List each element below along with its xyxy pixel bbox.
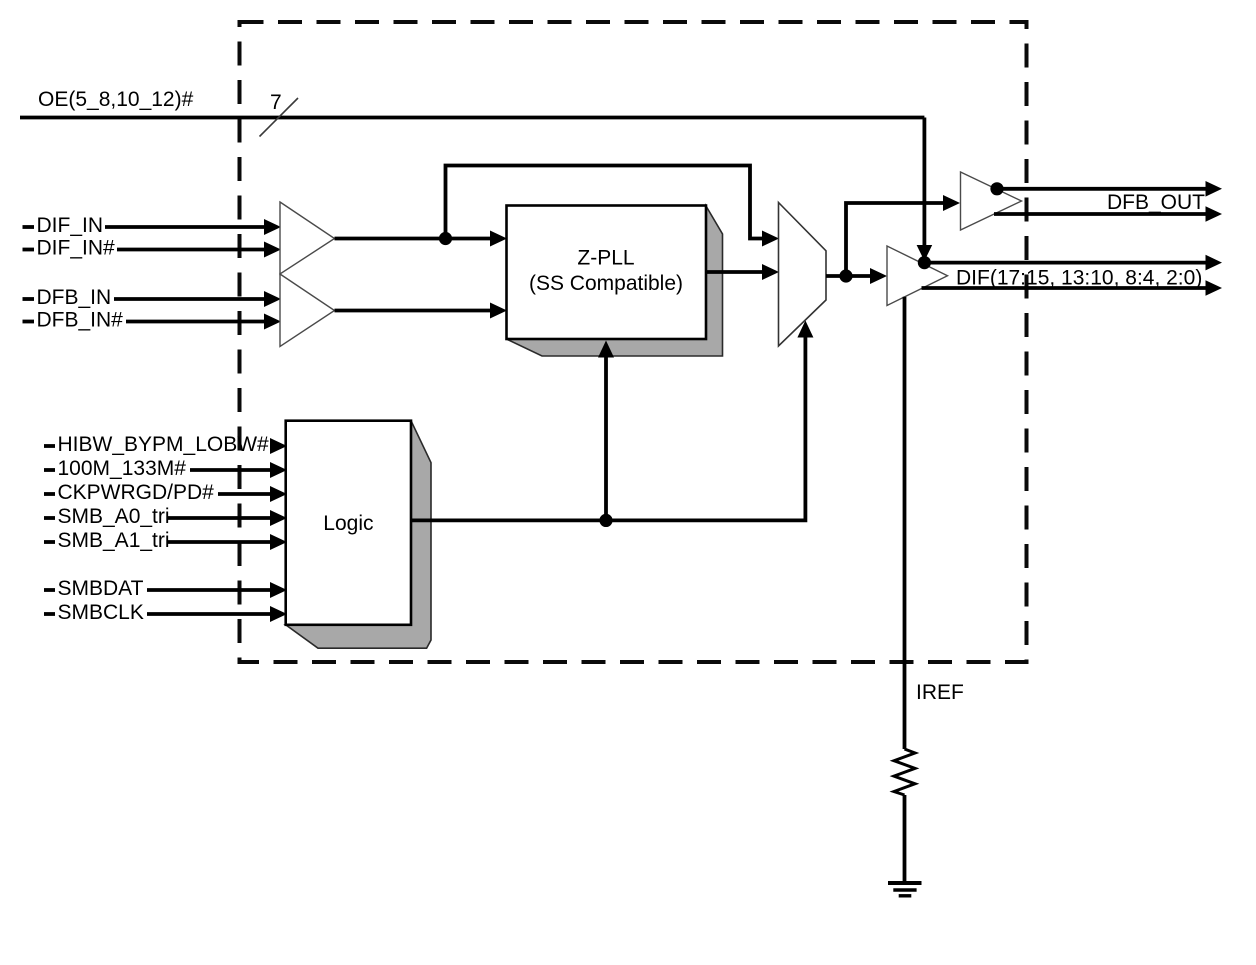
wire DIF buffer output to Z-PLL bbox=[335, 237, 492, 241]
svg-text:SMB_A0_tri: SMB_A0_tri bbox=[58, 505, 170, 528]
wire DFB_OUT complement bbox=[994, 212, 1207, 216]
input buffer DIF (triangle) bbox=[280, 202, 335, 274]
output buffer DIF (triangle) bbox=[887, 246, 948, 306]
bus width slash bbox=[260, 98, 299, 137]
node dot DIF true output / OE junction bbox=[918, 256, 931, 269]
arrow 100M_133M# bbox=[270, 462, 287, 478]
arrow OE down into DIF output node bbox=[917, 245, 933, 261]
arrow SMB_A0_tri bbox=[270, 510, 287, 526]
node dot DFB true output bbox=[990, 182, 1003, 195]
pin tick HIBW_BYPM_LOBW# bbox=[44, 444, 55, 448]
wire node C up to Z-PLL bottom bbox=[604, 356, 608, 520]
wire SMBCLK bbox=[147, 612, 271, 616]
node A junction dot on DIF buffer output bbox=[439, 232, 452, 245]
pin tick DFB_IN bbox=[23, 297, 35, 301]
pin tick DIF_IN# bbox=[23, 248, 35, 252]
svg-text:SMBCLK: SMBCLK bbox=[58, 601, 144, 624]
arrow SMBCLK bbox=[270, 606, 287, 622]
arrow DFB_IN# bbox=[264, 314, 281, 330]
wire IREF vertical bbox=[903, 297, 907, 749]
wire OE bus vertical drop bbox=[923, 118, 927, 247]
svg-text:SMBDAT: SMBDAT bbox=[58, 577, 144, 600]
arrow DIF complement bbox=[1206, 280, 1223, 296]
pin tick SMBCLK bbox=[44, 612, 55, 616]
wire DFB buffer output to Z-PLL bbox=[335, 309, 492, 313]
arrow SMBDAT bbox=[270, 582, 287, 598]
pin tick CKPWRGD/PD# bbox=[44, 492, 55, 496]
svg-text:DFB_OUT: DFB_OUT bbox=[1107, 191, 1205, 214]
chip boundary dashed box bbox=[240, 22, 1027, 662]
mux (trapezoid) bbox=[779, 203, 827, 347]
svg-text:DIF(17:15, 13:10, 8:4, 2:0): DIF(17:15, 13:10, 8:4, 2:0) bbox=[956, 267, 1202, 290]
svg-text:DIF_IN#: DIF_IN# bbox=[37, 237, 116, 260]
wire DIF complement bbox=[922, 286, 1207, 290]
arrow CKPWRGD/PD# bbox=[270, 486, 287, 502]
arrow into Z-PLL bottom bbox=[598, 341, 614, 358]
wire DFB_IN# bbox=[126, 320, 265, 324]
pin tick DFB_IN# bbox=[23, 320, 35, 324]
arrow HIBW_BYPM_LOBW# bbox=[270, 438, 287, 454]
svg-text:SMB_A1_tri: SMB_A1_tri bbox=[58, 529, 170, 552]
arrow into mux input 2 bbox=[762, 264, 779, 280]
svg-text:OE(5_8,10_12)#: OE(5_8,10_12)# bbox=[38, 88, 194, 111]
svg-text:DFB_IN#: DFB_IN# bbox=[37, 309, 124, 332]
svg-text:100M_133M#: 100M_133M# bbox=[58, 457, 187, 480]
node B junction dot mux output bbox=[839, 269, 852, 282]
arrow DFB_IN bbox=[264, 291, 281, 307]
Logic box U2 bbox=[286, 421, 411, 625]
pin tick SMB_A1_tri bbox=[44, 540, 55, 544]
wire DIF_IN bbox=[105, 225, 265, 229]
svg-text:DIF_IN: DIF_IN bbox=[37, 214, 104, 237]
svg-text:HIBW_BYPM_LOBW#: HIBW_BYPM_LOBW# bbox=[58, 433, 270, 456]
ground bbox=[888, 881, 922, 885]
arrow DIF_IN bbox=[264, 219, 281, 235]
wire Z-PLL output to mux input 2 bbox=[706, 270, 763, 274]
arrow DIF true bbox=[1206, 255, 1223, 271]
wire 100M_133M# bbox=[190, 468, 271, 472]
arrow into Z-PLL input 2 bbox=[490, 303, 507, 319]
arrow into Z-PLL input 1 bbox=[490, 231, 507, 247]
arrow into mux input 1 bbox=[762, 231, 779, 247]
svg-text:DFB_IN: DFB_IN bbox=[37, 286, 112, 309]
wire DFB_OUT true bbox=[997, 187, 1207, 191]
wire HIBW_BYPM_LOBW# bbox=[270, 444, 274, 448]
arrow into DIF output buffer bbox=[870, 268, 887, 284]
svg-text:IREF: IREF bbox=[916, 681, 964, 704]
wire DIF_IN# bbox=[117, 248, 265, 252]
svg-text:Logic: Logic bbox=[323, 512, 373, 535]
wire mux output bbox=[826, 274, 870, 278]
wire SMB_A0_tri bbox=[168, 516, 271, 520]
node C junction dot on logic output bbox=[599, 514, 612, 527]
wire DFB_IN bbox=[114, 297, 265, 301]
wire Logic output bbox=[411, 337, 805, 520]
svg-text:(SS Compatible): (SS Compatible) bbox=[529, 272, 683, 295]
wire CKPWRGD/PD# bbox=[218, 492, 271, 496]
svg-text:CKPWRGD/PD#: CKPWRGD/PD# bbox=[58, 481, 215, 504]
wire node B up to DFB output buffer bbox=[846, 203, 944, 276]
wire SMB_A1_tri bbox=[168, 540, 271, 544]
pin tick 100M_133M# bbox=[44, 468, 55, 472]
wire SMBDAT bbox=[147, 588, 271, 592]
arrow DFB_OUT true bbox=[1206, 181, 1223, 197]
input buffer DFB (triangle) bbox=[280, 274, 335, 347]
Logic box shadow bbox=[286, 421, 431, 649]
arrow DIF_IN# bbox=[264, 242, 281, 258]
wire resistor to ground bbox=[903, 795, 907, 881]
svg-text:7: 7 bbox=[270, 91, 282, 114]
arrow SMB_A1_tri bbox=[270, 534, 287, 550]
resistor R1 zigzag bbox=[894, 749, 915, 795]
wire OE bus horizontal bbox=[20, 116, 924, 120]
wire feedback bypass up-over (node A to mux input 1) bbox=[446, 166, 764, 239]
Z-PLL box U1 bbox=[507, 206, 707, 340]
output buffer DFB (triangle) bbox=[961, 172, 1022, 230]
arrow into DFB output buffer bbox=[943, 195, 960, 211]
pin tick SMBDAT bbox=[44, 588, 55, 592]
arrow DFB_OUT complement bbox=[1206, 206, 1223, 222]
pin tick DIF_IN bbox=[23, 225, 35, 229]
wire DIF true bbox=[924, 261, 1206, 265]
Z-PLL shadow bbox=[507, 206, 723, 356]
svg-text:Z-PLL: Z-PLL bbox=[577, 247, 634, 270]
pin tick SMB_A0_tri bbox=[44, 516, 55, 520]
arrow into mux select bbox=[797, 321, 813, 338]
